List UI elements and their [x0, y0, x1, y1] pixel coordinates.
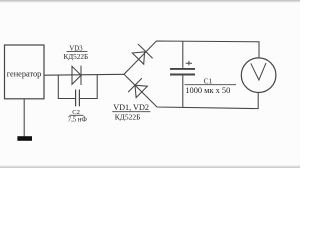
svg-text:1000 мк x 50: 1000 мк x 50: [185, 86, 230, 95]
plus sign of C1: [186, 61, 192, 66]
capacitor C1 top lead: [182, 41, 184, 68]
svg-text:VD1, VD2: VD1, VD2: [113, 103, 149, 112]
label rule C1: [185, 84, 237, 86]
svg-text:C1: C1: [204, 78, 213, 86]
generator box G1: [5, 45, 45, 99]
wire: junction A up through top bend to voltmeter top: [124, 41, 259, 74]
diode VD3: [72, 66, 81, 85]
capacitor C1 bottom lead: [182, 76, 184, 108]
ground wire: [23, 99, 25, 137]
svg-text:7,5 нФ: 7,5 нФ: [68, 116, 88, 123]
wire: junction A down through bottom bend to voltmeter bottom: [124, 74, 258, 108]
wire: C2 branch right rise: [79, 75, 97, 99]
svg-text:генератор: генератор: [7, 69, 42, 78]
voltmeter V mark: [251, 63, 266, 80]
top scan band: [0, 0, 300, 3]
capacitor C1 plates: [170, 68, 195, 70]
diode VD2 (upper diagonal): [131, 44, 153, 66]
voltmeter PV1 circle: [241, 58, 276, 93]
svg-text:КД522Б: КД522Б: [115, 113, 141, 122]
ground: [17, 136, 32, 141]
label rule VD3: [67, 51, 88, 53]
label rule VD1,VD2: [112, 111, 150, 113]
diode VD1 (lower diagonal): [128, 78, 148, 98]
wire: C2 branch left drop: [58, 75, 75, 99]
capacitor C2: [75, 90, 77, 107]
label rule C2: [70, 114, 84, 116]
svg-text:КД522Б: КД522Б: [63, 53, 88, 61]
bottom scan band: [0, 164, 300, 168]
svg-text:VD3: VD3: [69, 45, 83, 52]
wire: generator output to junction A: [44, 73, 124, 76]
svg-text:C2: C2: [72, 109, 80, 116]
